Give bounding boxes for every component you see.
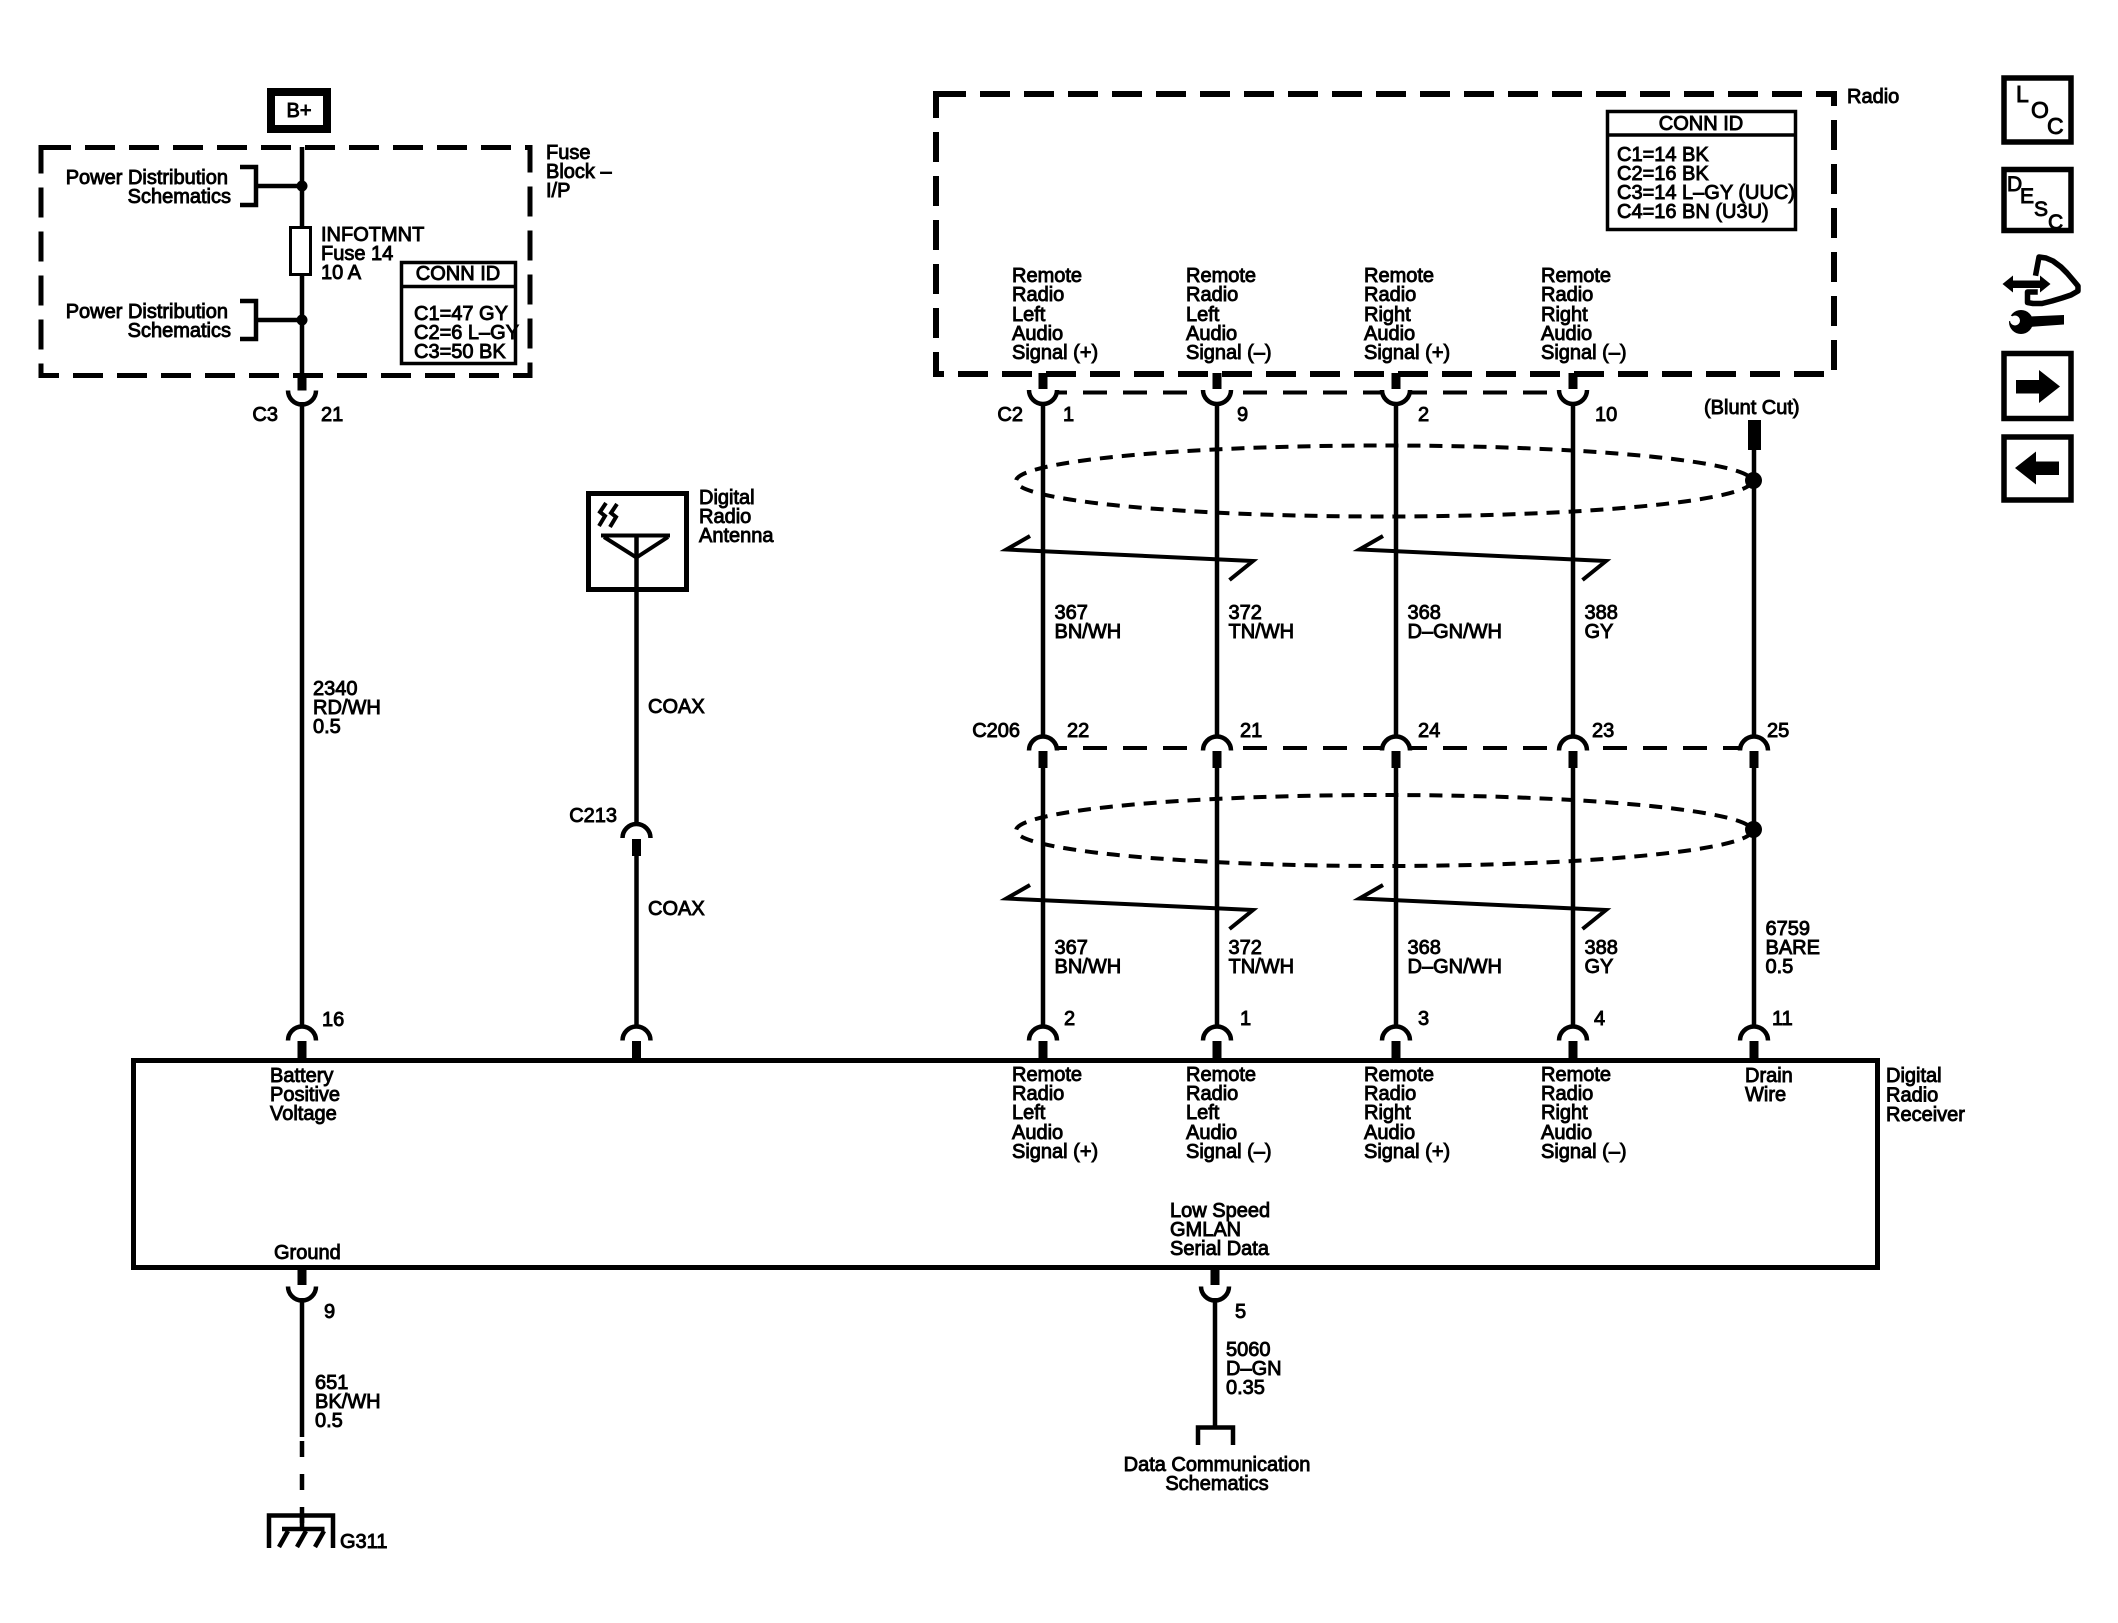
receiver label drain wire	[1745, 1065, 1793, 1106]
radio pin label: remote radio right audio signal (+)	[1364, 265, 1450, 364]
svg-text:Voltage: Voltage	[270, 1103, 337, 1125]
svg-text:Schematics: Schematics	[128, 320, 231, 342]
twist symbol lower left	[1007, 885, 1254, 929]
receiver label battery positive voltage	[270, 1065, 340, 1125]
radio dashed box	[936, 94, 1834, 374]
receiver pin 11 connector	[1740, 1008, 1793, 1059]
wire 388 upper	[1571, 402, 1576, 737]
svg-text:1: 1	[1063, 404, 1074, 426]
svg-text:C2: C2	[997, 404, 1023, 426]
svg-text:0.5: 0.5	[313, 716, 341, 738]
drain wire lower segment	[1752, 768, 1757, 1028]
svg-text:B+: B+	[286, 100, 311, 122]
radio pin label: remote radio right audio signal (-)	[1541, 265, 1627, 364]
connector C2 pin 10	[1559, 373, 1617, 426]
back arrow icon	[2004, 437, 2071, 500]
wire B+ feed through fuse block	[300, 147, 305, 376]
svg-text:Signal (+): Signal (+)	[1364, 1141, 1450, 1163]
svg-text:10: 10	[1595, 404, 1617, 426]
shield junction dot (upper)	[1745, 472, 1762, 489]
svg-text:23: 23	[1592, 720, 1614, 742]
svg-text:22: 22	[1067, 720, 1089, 742]
wire label 372 TN/WH (lower)	[1229, 937, 1295, 978]
receiver label remote radio left audio signal (-)	[1186, 1064, 1272, 1163]
svg-text:Signal (+): Signal (+)	[1012, 1141, 1098, 1163]
svg-text:0.5: 0.5	[315, 1410, 343, 1432]
forward arrow icon	[2004, 354, 2071, 419]
connector C2 pin 1	[997, 373, 1074, 426]
label Digital Radio Receiver	[1886, 1065, 1965, 1126]
svg-text:BN/WH: BN/WH	[1055, 621, 1122, 643]
svg-text:D–GN/WH: D–GN/WH	[1408, 956, 1502, 978]
svg-text:TN/WH: TN/WH	[1229, 621, 1295, 643]
svg-text:21: 21	[321, 404, 343, 426]
svg-text:Radio: Radio	[1186, 284, 1238, 306]
svg-text:GY: GY	[1585, 956, 1614, 978]
wire label 388 GY (lower)	[1585, 937, 1618, 978]
CONN ID table (radio)	[1606, 112, 1797, 230]
wire label 372 TN/WH (upper)	[1229, 602, 1295, 643]
wire label 367 BN/WH (upper)	[1055, 602, 1122, 643]
receiver pin 16 connector	[288, 1009, 344, 1059]
svg-text:11: 11	[1772, 1008, 1793, 1030]
wire 5060 D-GN 0.35	[1215, 1298, 1282, 1429]
svg-text:BN/WH: BN/WH	[1055, 956, 1122, 978]
svg-text:Left: Left	[1012, 1102, 1046, 1124]
twisted pair ellipse (upper)	[1016, 446, 1752, 517]
data communication schematics reference	[1124, 1454, 1311, 1495]
coax wire (upper)	[637, 592, 705, 825]
wire from top reference to node	[256, 184, 302, 189]
svg-text:C3=50 BK: C3=50 BK	[414, 341, 506, 363]
svg-text:Radio: Radio	[1847, 86, 1899, 108]
svg-text:Signal (–): Signal (–)	[1186, 1141, 1272, 1163]
svg-text:24: 24	[1418, 720, 1440, 742]
svg-text:Serial Data: Serial Data	[1170, 1238, 1270, 1260]
svg-text:Antenna: Antenna	[699, 525, 774, 547]
svg-text:C3: C3	[252, 404, 278, 426]
svg-text:C213: C213	[569, 805, 617, 827]
svg-text:Schematics: Schematics	[1165, 1473, 1268, 1495]
svg-text:2: 2	[1064, 1008, 1075, 1030]
power distribution schematics reference (bottom)	[66, 301, 256, 342]
receiver label remote radio right audio signal (-)	[1541, 1064, 1627, 1163]
receiver antenna pin connector	[623, 1027, 651, 1059]
connector C2 pin 2	[1382, 373, 1429, 426]
desc icon	[2004, 170, 2071, 235]
svg-text:Radio: Radio	[1541, 284, 1593, 306]
label Fuse Block I/P	[546, 142, 612, 202]
receiver serial data pin 5 connector	[1201, 1269, 1246, 1323]
svg-text:2: 2	[1418, 404, 1429, 426]
svg-text:COAX: COAX	[648, 696, 705, 718]
receiver label low speed GMLAN serial data	[1170, 1200, 1270, 1260]
svg-text:(Blunt Cut): (Blunt Cut)	[1704, 397, 1800, 419]
receiver pin 4 connector	[1559, 1008, 1605, 1059]
power distribution schematics reference (top)	[66, 167, 256, 208]
svg-text:S: S	[2034, 198, 2048, 221]
radio pin label: remote radio left audio signal (-)	[1186, 265, 1272, 364]
svg-text:I/P: I/P	[546, 180, 570, 202]
svg-text:16: 16	[322, 1009, 344, 1031]
svg-text:C: C	[2048, 211, 2063, 234]
svg-text:21: 21	[1240, 720, 1262, 742]
digital radio antenna	[589, 487, 775, 592]
receiver ground pin 9 connector	[288, 1269, 335, 1323]
connector C206 pin 25	[1740, 720, 1789, 768]
svg-text:C: C	[2047, 113, 2064, 139]
svg-text:Wire: Wire	[1745, 1084, 1786, 1106]
CONN ID table (fuse block)	[400, 263, 519, 364]
svg-text:CONN ID: CONN ID	[1659, 113, 1743, 135]
svg-text:0.5: 0.5	[1766, 956, 1794, 978]
receiver label remote radio left audio signal (+)	[1012, 1064, 1098, 1163]
fuse INFOTMNT Fuse 14 10 A	[291, 224, 425, 284]
svg-text:9: 9	[1237, 404, 1248, 426]
svg-text:Signal (–): Signal (–)	[1186, 342, 1272, 364]
svg-text:9: 9	[324, 1301, 335, 1323]
drain wire upper segment	[1752, 450, 1757, 737]
svg-text:C206: C206	[972, 720, 1020, 742]
svg-text:Schematics: Schematics	[128, 186, 231, 208]
svg-text:Receiver: Receiver	[1886, 1104, 1965, 1126]
wire from bottom reference to node	[256, 318, 302, 323]
junction node (top)	[297, 181, 308, 192]
svg-text:4: 4	[1594, 1008, 1605, 1030]
svg-text:10 A: 10 A	[321, 262, 362, 284]
connector C206 pin 24	[1382, 720, 1440, 768]
svg-text:Signal (–): Signal (–)	[1541, 1141, 1627, 1163]
connector C206 pin 21	[1203, 720, 1262, 768]
wire label 6759 BARE 0.5	[1766, 918, 1820, 978]
wire label 368 D-GN/WH (lower)	[1408, 937, 1502, 978]
wire 388 lower	[1571, 768, 1576, 1028]
svg-text:Radio: Radio	[1012, 284, 1064, 306]
twist symbol upper left	[1007, 536, 1254, 580]
svg-text:Radio: Radio	[1364, 284, 1416, 306]
svg-text:E: E	[2020, 185, 2034, 208]
connector C213	[569, 805, 650, 856]
svg-text:TN/WH: TN/WH	[1229, 956, 1295, 978]
shield junction dot (lower)	[1745, 821, 1762, 838]
blunt cut drain stub	[1704, 397, 1800, 450]
svg-text:CONN ID: CONN ID	[416, 263, 500, 285]
connector C206 dashed line	[1043, 746, 1754, 750]
connector C206 pin 23	[1559, 720, 1614, 768]
digital radio receiver box	[134, 1061, 1878, 1268]
svg-text:L: L	[2016, 81, 2029, 107]
svg-text:1: 1	[1240, 1008, 1251, 1030]
wire 368 upper	[1394, 402, 1399, 737]
svg-text:Left: Left	[1186, 1102, 1220, 1124]
off-page connector symbol	[1198, 1428, 1233, 1446]
svg-text:Right: Right	[1541, 1102, 1588, 1124]
svg-text:Signal (+): Signal (+)	[1012, 342, 1098, 364]
connector C3 pin 21	[252, 376, 343, 426]
wire label 367 BN/WH (lower)	[1055, 937, 1122, 978]
coax wire (lower)	[637, 856, 705, 1028]
wire 651 BK/WH 0.5	[302, 1298, 381, 1529]
receiver pin 2 connector	[1029, 1008, 1075, 1059]
svg-text:5: 5	[1235, 1301, 1246, 1323]
wire 367 lower	[1041, 768, 1046, 1028]
battery positive voltage symbol B+	[267, 88, 331, 133]
svg-text:3: 3	[1418, 1008, 1429, 1030]
wire 372 lower	[1215, 768, 1220, 1028]
ground G311	[269, 1516, 387, 1554]
receiver pin 1 connector	[1203, 1008, 1251, 1059]
wire 2340 RD/WH 0.5	[302, 402, 381, 1028]
twisted pair ellipse (lower)	[1016, 795, 1752, 866]
junction node (bottom)	[297, 315, 308, 326]
svg-text:Right: Right	[1364, 1102, 1411, 1124]
wire label 388 GY (upper)	[1585, 602, 1618, 643]
wire 368 lower	[1394, 768, 1399, 1028]
svg-text:GY: GY	[1585, 621, 1614, 643]
wire label 368 D-GN/WH (upper)	[1408, 602, 1502, 643]
svg-text:Signal (+): Signal (+)	[1364, 342, 1450, 364]
receiver pin 3 connector	[1382, 1008, 1429, 1059]
connector C206 pin 22	[972, 720, 1089, 768]
svg-text:Signal (–): Signal (–)	[1541, 342, 1627, 364]
fuse block dashed box	[41, 148, 530, 376]
radio pin label: remote radio left audio signal (+)	[1012, 265, 1098, 364]
svg-text:25: 25	[1767, 720, 1789, 742]
connector C2 pin 9	[1203, 373, 1248, 426]
loc icon	[2004, 78, 2071, 142]
twist symbol lower right	[1360, 885, 1607, 929]
svg-text:G311: G311	[340, 1531, 387, 1553]
svg-text:Ground: Ground	[274, 1242, 341, 1264]
svg-text:0.35: 0.35	[1226, 1377, 1265, 1399]
svg-text:COAX: COAX	[648, 898, 705, 920]
twist symbol upper right	[1360, 536, 1607, 580]
wire 372 upper	[1215, 402, 1220, 737]
receiver label remote radio right audio signal (+)	[1364, 1064, 1450, 1163]
connector C2 dashed line	[1043, 391, 1573, 395]
harness routing icon	[2001, 257, 2078, 334]
svg-text:C4=16 BN (U3U): C4=16 BN (U3U)	[1617, 201, 1769, 223]
svg-text:D–GN/WH: D–GN/WH	[1408, 621, 1502, 643]
wire 367 upper	[1041, 402, 1046, 737]
